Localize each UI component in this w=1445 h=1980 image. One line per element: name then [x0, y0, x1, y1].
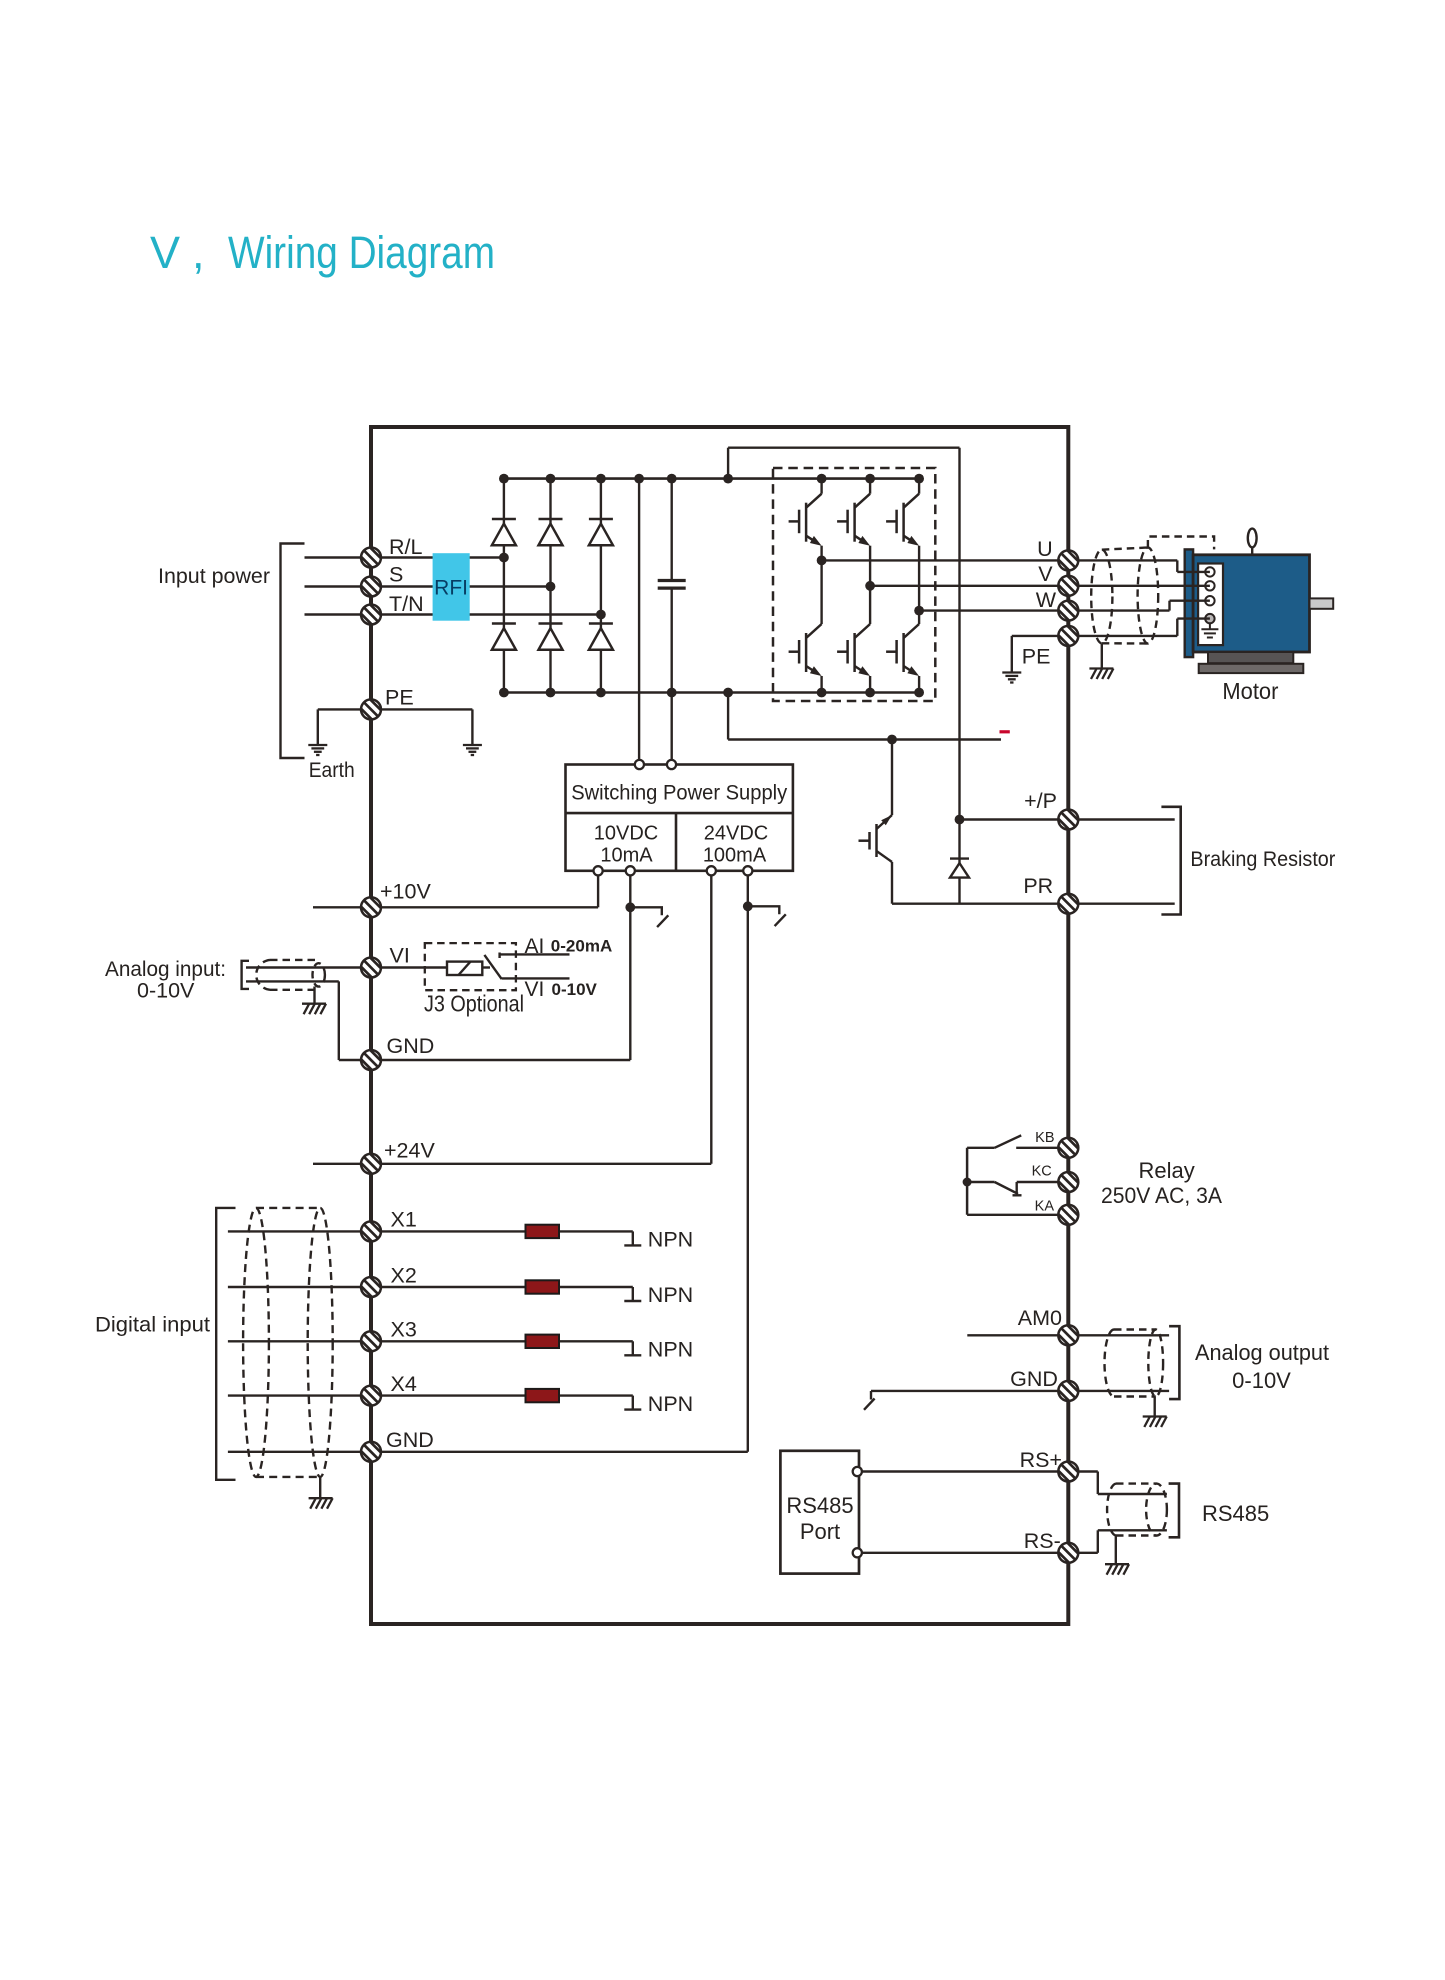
- svg-text:+24V: +24V: [384, 1139, 435, 1163]
- svg-text:GND: GND: [387, 1034, 435, 1058]
- svg-text:AM0: AM0: [1018, 1306, 1062, 1330]
- svg-text:RS-: RS-: [1024, 1529, 1061, 1553]
- svg-text:10mA: 10mA: [600, 845, 653, 867]
- svg-text:NPN: NPN: [648, 1392, 693, 1416]
- svg-text:0-10V: 0-10V: [552, 980, 598, 999]
- svg-text:0-10V: 0-10V: [137, 979, 195, 1003]
- svg-text:U: U: [1037, 537, 1053, 561]
- svg-text:VI: VI: [525, 978, 545, 1001]
- svg-text:NPN: NPN: [648, 1338, 693, 1362]
- svg-text:R/L: R/L: [389, 535, 423, 559]
- svg-text:Earth: Earth: [309, 758, 355, 782]
- svg-text:Input power: Input power: [158, 564, 270, 588]
- svg-text:J3 Optional: J3 Optional: [424, 991, 524, 1017]
- svg-text:W: W: [1036, 588, 1057, 612]
- svg-text:NPN: NPN: [648, 1228, 693, 1252]
- svg-text:PE: PE: [1022, 645, 1051, 669]
- svg-text:RS485: RS485: [786, 1493, 853, 1518]
- svg-text:Analog output: Analog output: [1195, 1340, 1329, 1365]
- svg-text:Switching Power Supply: Switching Power Supply: [571, 782, 787, 805]
- svg-text:KB: KB: [1035, 1130, 1054, 1146]
- svg-text:RS+: RS+: [1020, 1448, 1062, 1472]
- svg-text:PE: PE: [385, 686, 414, 710]
- svg-text:Digital input: Digital input: [95, 1313, 210, 1337]
- svg-text:24VDC: 24VDC: [704, 823, 768, 845]
- svg-text:X4: X4: [391, 1372, 417, 1396]
- svg-text:Motor: Motor: [1222, 678, 1278, 704]
- svg-text:X1: X1: [391, 1208, 417, 1232]
- svg-text:0-10V: 0-10V: [1232, 1368, 1291, 1393]
- svg-text:Analog input:: Analog input:: [105, 957, 226, 981]
- svg-text:X2: X2: [391, 1264, 417, 1288]
- svg-text:Braking Resistor: Braking Resistor: [1190, 847, 1335, 871]
- svg-text:+/P: +/P: [1024, 789, 1057, 813]
- svg-text:V: V: [1038, 562, 1053, 586]
- svg-text:V: V: [150, 227, 180, 278]
- svg-text:,: ,: [192, 227, 205, 278]
- svg-text:Port: Port: [800, 1519, 840, 1544]
- svg-text:100mA: 100mA: [703, 845, 767, 867]
- svg-text:PR: PR: [1023, 874, 1053, 898]
- svg-text:RFI: RFI: [434, 577, 468, 600]
- svg-text:250V AC, 3A: 250V AC, 3A: [1101, 1183, 1222, 1208]
- svg-text:GND: GND: [386, 1428, 434, 1452]
- svg-text:NPN: NPN: [648, 1283, 693, 1307]
- svg-text:Relay: Relay: [1139, 1158, 1195, 1183]
- svg-text:0-20mA: 0-20mA: [551, 937, 612, 956]
- svg-text:VI: VI: [390, 944, 410, 968]
- svg-text:+10V: +10V: [380, 880, 431, 904]
- svg-text:S: S: [389, 563, 403, 587]
- svg-text:KC: KC: [1032, 1163, 1052, 1179]
- svg-text:X3: X3: [391, 1318, 417, 1342]
- svg-text:10VDC: 10VDC: [594, 823, 658, 845]
- svg-text:AI: AI: [525, 935, 545, 958]
- svg-text:RS485: RS485: [1202, 1501, 1269, 1526]
- svg-text:KA: KA: [1035, 1199, 1055, 1215]
- svg-text:T/N: T/N: [389, 592, 424, 616]
- svg-text:Wiring Diagram: Wiring Diagram: [228, 227, 495, 278]
- svg-text:GND: GND: [1010, 1367, 1058, 1391]
